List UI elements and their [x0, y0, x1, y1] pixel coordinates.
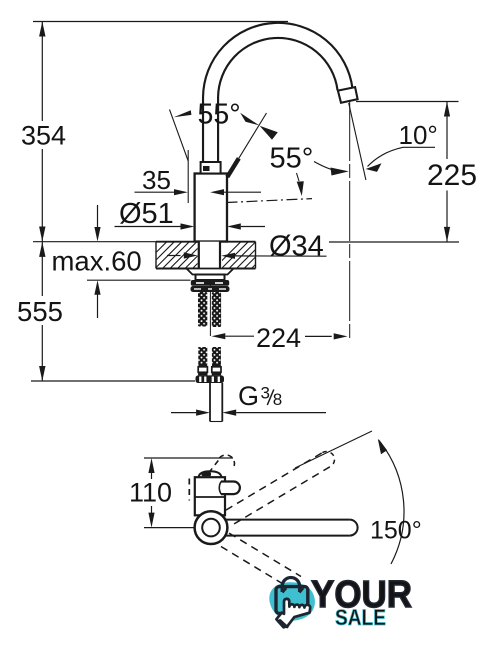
svg-text:SALE: SALE — [335, 605, 386, 630]
dashed swung arm lower — [229, 533, 301, 576]
top view cap mark — [202, 472, 212, 476]
svg-text:8: 8 — [273, 390, 282, 409]
hose lower right braided — [212, 347, 221, 364]
top view: 110 upper reference line — [144, 457, 233, 459]
dashed lever rotated cap — [220, 455, 235, 469]
hose upper left braided — [198, 292, 207, 327]
10deg leader curve — [368, 147, 404, 166]
svg-text:224: 224 — [256, 323, 301, 353]
top view body cap — [199, 471, 222, 477]
countertop slab right hatch — [214, 242, 278, 269]
slab bottom line — [156, 268, 198, 270]
55deg bowtie arrow b — [260, 126, 278, 140]
cartridge collar — [201, 162, 221, 174]
55deg lower leader arrow — [297, 173, 300, 181]
escutcheon trapezoid — [187, 269, 234, 275]
top reference line — [33, 21, 288, 23]
handle front mark — [203, 166, 210, 171]
354 dimension line — [41, 22, 43, 122]
slab right edge — [255, 242, 257, 269]
logo bag — [276, 587, 308, 614]
svg-text:3: 3 — [261, 384, 270, 403]
225 top reference line — [356, 101, 459, 103]
G3/8 dimension arrows — [171, 412, 196, 414]
hose end fittings — [198, 367, 207, 373]
55deg lower arc to centerline — [314, 162, 340, 172]
top view body — [195, 477, 225, 515]
mounting ring 3 dark — [191, 286, 230, 292]
lever handle — [227, 158, 239, 177]
top view: 110 lower reference line — [144, 527, 195, 529]
35 dimension — [135, 191, 175, 193]
svg-text:35: 35 — [142, 165, 171, 195]
224 dimension — [212, 333, 226, 339]
gooseneck spout outline — [211, 30, 345, 166]
mounting ring 1 — [196, 275, 225, 281]
svg-text:max.60: max.60 — [52, 246, 142, 277]
dash-dot reference line — [227, 199, 313, 203]
svg-text:354: 354 — [21, 121, 66, 151]
555 dimension line — [41, 242, 43, 296]
svg-text:55°: 55° — [198, 99, 241, 131]
logo hand — [276, 599, 310, 627]
slab top line — [156, 241, 256, 243]
150deg arc — [379, 440, 404, 564]
counter reference line right — [329, 241, 459, 243]
pivot outer circle — [195, 511, 228, 544]
mounting ring 2 dark — [191, 280, 229, 286]
shank through counter — [199, 242, 220, 270]
max.60 lower arrow — [97, 295, 99, 319]
10 degree tilted line — [349, 103, 366, 180]
svg-text:555: 555 — [17, 296, 63, 327]
top view lever — [221, 482, 240, 495]
logo wrist line — [280, 620, 287, 627]
faucet body — [195, 174, 227, 242]
tailpipe — [210, 383, 222, 422]
logo bag handle — [282, 578, 299, 593]
svg-text:Ø34: Ø34 — [269, 231, 324, 263]
svg-text:150°: 150° — [370, 517, 422, 545]
svg-text:Ø51: Ø51 — [119, 198, 174, 230]
hose upper right braided — [212, 292, 221, 327]
svg-text:10°: 10° — [399, 120, 438, 150]
svg-text:55°: 55° — [270, 143, 314, 175]
countertop slab left hatch — [140, 242, 219, 269]
hose crimps dark — [198, 364, 207, 367]
lever axis extension line — [239, 113, 267, 158]
spout tip centerline — [349, 101, 351, 341]
svg-text:110: 110 — [129, 478, 172, 508]
logo blob — [269, 582, 315, 620]
svg-text:G: G — [238, 381, 259, 411]
55deg left arrow — [174, 110, 192, 117]
max.60 lower reference line — [87, 279, 191, 281]
counter reference line left — [33, 241, 156, 243]
110 dimension line — [151, 471, 153, 479]
55deg bowtie arrow a — [240, 113, 259, 126]
55deg left leader line — [170, 110, 189, 162]
slab left edge — [155, 242, 157, 269]
dashed swung arm upper — [226, 453, 323, 511]
logo handle hooks — [282, 588, 286, 593]
body centerline — [209, 183, 211, 336]
svg-text:225: 225 — [427, 159, 477, 192]
225 dimension line — [446, 102, 448, 160]
55deg vertical reference line — [187, 150, 189, 203]
connection nut — [196, 375, 225, 383]
O51 dimension — [115, 226, 182, 228]
top view lever base arc — [219, 482, 221, 495]
O34 arrows — [167, 255, 181, 257]
top view body mid line — [195, 496, 225, 498]
aerator nozzle — [338, 87, 358, 103]
dashed lever left — [188, 479, 190, 501]
hose lower left braided — [198, 347, 207, 364]
bottom reference line (555) — [31, 380, 195, 382]
spout arm top view — [225, 519, 350, 521]
swung arm axis thin line — [295, 431, 372, 468]
max.60 upper arrow — [97, 205, 99, 228]
pivot inner circle — [202, 519, 220, 537]
